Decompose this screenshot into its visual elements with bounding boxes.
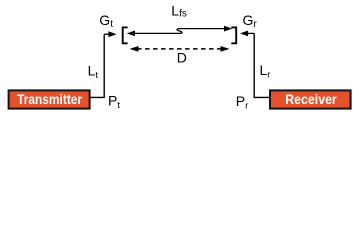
svg-text:Pr: Pr bbox=[236, 93, 249, 112]
svg-text:Gr: Gr bbox=[243, 12, 258, 30]
distance D dashed arrow left head bbox=[130, 46, 139, 52]
svg-text:Lr: Lr bbox=[260, 62, 271, 81]
antenna bracket right bbox=[231, 27, 236, 43]
svg-text:Lfs: Lfs bbox=[171, 3, 187, 20]
distance D dashed arrow right head bbox=[221, 46, 230, 52]
Gr gain arrow into antenna bbox=[240, 31, 254, 37]
distance D dashed line bbox=[137, 48, 222, 50]
svg-text:Transmitter: Transmitter bbox=[17, 91, 82, 107]
svg-text:Gt: Gt bbox=[99, 12, 113, 30]
svg-text:D: D bbox=[177, 50, 187, 66]
svg-text:Lt: Lt bbox=[88, 63, 99, 82]
Lfs free-space arrow right head bbox=[224, 26, 232, 32]
Gt gain arrow into antenna bbox=[104, 31, 116, 37]
receiver box bbox=[270, 90, 351, 108]
wire: receiver feed line (antenna down to Pr corner) bbox=[254, 33, 270, 97]
transmitter box bbox=[9, 90, 90, 108]
Lfs free-space arrow line with break squiggle bbox=[134, 29, 227, 34]
Lfs free-space arrow left head bbox=[127, 31, 135, 37]
antenna bracket left bbox=[123, 27, 128, 43]
wire: transmitter feed line (Pt corner up to antenna) bbox=[91, 34, 105, 97]
svg-text:Receiver: Receiver bbox=[285, 91, 337, 107]
svg-text:Pt: Pt bbox=[108, 93, 120, 112]
